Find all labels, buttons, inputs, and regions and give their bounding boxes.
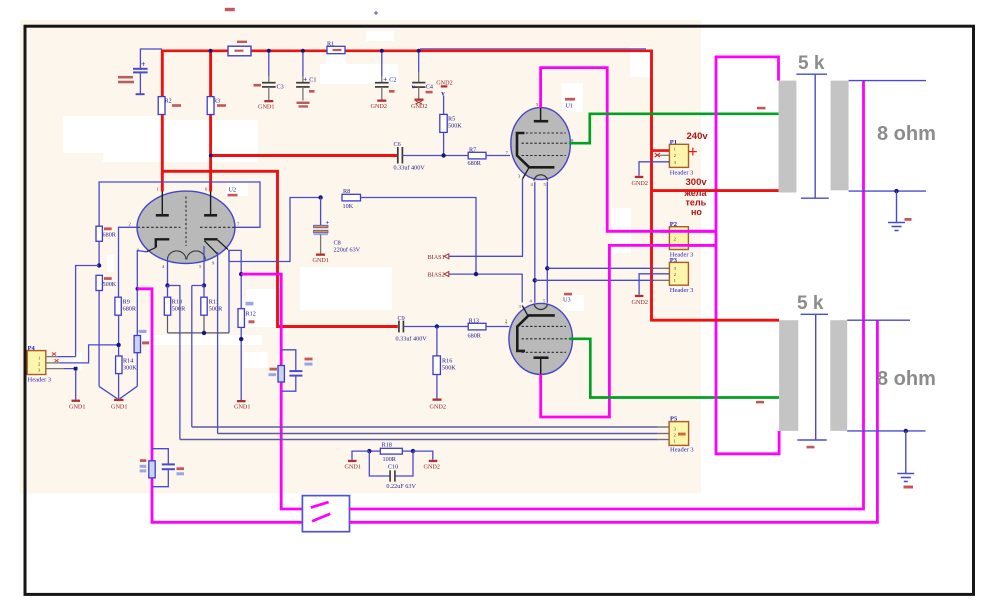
- ground GND1 (funnel): [111, 399, 128, 411]
- wire: U2 pin4 stub down to bus: [168, 286, 180, 440]
- resistor R2: [158, 50, 181, 192]
- resistor R13: [468, 318, 510, 340]
- wire: cathode2 to R12 and feedback node: [228, 250, 241, 308]
- wire: T1 secondary bottom: [849, 190, 926, 192]
- ground GND1 (C3): [258, 100, 275, 111]
- wire: U2 cathode1 line: [137, 251, 146, 387]
- wire: U2 left grid to divider network: [119, 227, 138, 297]
- svg-text:GND2: GND2: [632, 299, 649, 306]
- node: divider junction: [97, 263, 101, 267]
- resistor R16: [433, 327, 456, 399]
- svg-text:C1: C1: [309, 77, 316, 84]
- svg-text:680R: 680R: [468, 333, 482, 340]
- pentode U1 envelope: [511, 98, 575, 180]
- wires: ground funnel into GND1: [99, 386, 137, 399]
- svg-text:300v: 300v: [686, 177, 708, 188]
- svg-text:+: +: [688, 142, 698, 161]
- capacitor C10: [369, 451, 416, 490]
- net label BIAS2: [428, 272, 523, 303]
- capacitor C4: [412, 50, 434, 99]
- node: R8/C8 junction: [318, 195, 322, 199]
- heater bus wires to P5: [180, 427, 658, 440]
- wire: P4 pin2 to R9/R14 node: [46, 345, 119, 363]
- svg-text:680R: 680R: [468, 160, 482, 167]
- resistor R18: [367, 441, 415, 462]
- svg-text:500K: 500K: [448, 123, 462, 130]
- svg-text:R2: R2: [165, 98, 172, 105]
- svg-text:300K: 300K: [123, 365, 137, 372]
- wire: P1 pin3 to GND2: [639, 162, 669, 176]
- node: BIAS2/R8 junction: [474, 272, 478, 276]
- capacitor C2: [375, 50, 397, 100]
- svg-text:0.33uf 400V: 0.33uf 400V: [394, 165, 426, 172]
- resistor (cathode bypass, unlabelled): [134, 330, 149, 353]
- svg-text:8 ohm: 8 ohm: [877, 368, 936, 390]
- wire: magenta switch to output tap 2: [350, 320, 878, 522]
- svg-text:Header 3: Header 3: [670, 447, 694, 454]
- ground GND2 (C4): [411, 99, 428, 111]
- resistor R10: [164, 286, 186, 333]
- node: cathode/feedback tap: [136, 287, 140, 291]
- transformer T2 primary bar: [779, 320, 798, 431]
- wire: P3 pin2 to GND2: [639, 274, 669, 295]
- svg-text:0.33uf 400V: 0.33uf 400V: [396, 336, 428, 343]
- transformer T2 secondary bar: [830, 320, 847, 431]
- earth ground (T1 secondary): [888, 191, 912, 230]
- svg-text:U1: U1: [566, 103, 574, 110]
- svg-text:R16: R16: [442, 358, 452, 365]
- wire: green U3 screen to transformer 2: [570, 339, 780, 398]
- wire: B+ red vertical drop to output stage: [650, 50, 653, 321]
- svg-text:R12: R12: [246, 311, 256, 318]
- wire: divider junction to P4 pin1: [76, 266, 100, 357]
- ground (red bars, C1): [297, 102, 310, 108]
- wire: U2 pin9 line down to bus: [217, 252, 219, 434]
- svg-text:Header 3: Header 3: [670, 169, 694, 176]
- svg-text:500K: 500K: [442, 365, 456, 372]
- pentode U3 envelope: [509, 293, 573, 375]
- resistor R9: [115, 297, 137, 356]
- svg-text:BIAS1: BIAS1: [428, 254, 445, 261]
- svg-text:GND1: GND1: [69, 404, 86, 411]
- svg-text:Header 3: Header 3: [28, 377, 52, 384]
- svg-text:GND2: GND2: [430, 404, 447, 411]
- wire: magenta primary link vertical: [716, 57, 779, 454]
- transformer T1 core: [796, 74, 828, 198]
- wire: U2 pin4 line: [167, 260, 169, 286]
- wire: tail to U2 cathode2: [228, 250, 230, 333]
- svg-text:5 k: 5 k: [798, 53, 825, 74]
- wire: blue feed into B+ bus: [140, 49, 162, 70]
- svg-text:C2: C2: [389, 77, 396, 84]
- wire: heater tap to P3 pin3: [547, 267, 654, 269]
- wire: U1 heater pin5 down: [546, 182, 548, 303]
- header P1: [669, 139, 693, 177]
- header P5: [669, 416, 694, 454]
- resistor R5: [440, 114, 462, 155]
- svg-text:C10: C10: [388, 463, 398, 470]
- transformer T2 core: [797, 314, 828, 440]
- U2 grids (dashed) and centre divider: [137, 197, 235, 247]
- transformer T1 primary bar: [779, 81, 797, 193]
- node: R11 top: [202, 283, 206, 287]
- earth ground (T2 secondary): [897, 431, 914, 489]
- wire: U2 pin5 stub down to bus: [192, 286, 204, 428]
- svg-text:R5: R5: [448, 116, 455, 123]
- node: C9/R13/R16 junction: [435, 324, 439, 328]
- triode U2 envelope: [137, 187, 238, 264]
- wire: U2 pin5 line: [203, 246, 205, 286]
- node: heater tap to P3 pin3: [545, 266, 549, 270]
- svg-text:C4: C4: [426, 84, 433, 91]
- fuse/resistor box (unlabelled, top): [228, 41, 251, 56]
- node: R10 top: [165, 283, 169, 287]
- U1 heater arc: [534, 175, 548, 181]
- wire: magenta switch to output tap 1: [350, 81, 864, 509]
- power port GND2 (feeds R5): [436, 80, 453, 115]
- U1 grids (dashed): [522, 133, 570, 156]
- resistor R7: [468, 147, 511, 167]
- wire: thin blue edge along B+ bus: [420, 48, 646, 50]
- ground GND2 (R16): [430, 399, 447, 411]
- wire: T2 secondary top: [847, 319, 910, 321]
- svg-text:тель: тель: [686, 197, 707, 207]
- svg-text:U3: U3: [563, 297, 571, 304]
- wire: U1 anode magenta loop: [541, 68, 716, 232]
- svg-text:8 ohm: 8 ohm: [877, 123, 936, 145]
- ground GND1 (P4): [69, 400, 86, 411]
- svg-text:+: +: [141, 60, 146, 69]
- wire: U2 right grid loop to top-left: [99, 182, 260, 227]
- wire: red P1 feed stub: [652, 149, 670, 152]
- svg-text:500R: 500R: [172, 306, 186, 313]
- U1 anode pin and plate: [534, 102, 548, 121]
- svg-text:10K: 10K: [343, 203, 354, 210]
- wire: P4 pin1: [46, 353, 76, 357]
- svg-text:R9: R9: [123, 299, 130, 306]
- wire: R18 left to GND1: [352, 451, 369, 460]
- white patches: [63, 116, 163, 153]
- svg-text:но: но: [691, 207, 702, 217]
- svg-text:240v: 240v: [687, 131, 709, 142]
- wire: P4 pin3 to ground: [46, 367, 78, 400]
- capacitor C8: [314, 198, 361, 254]
- resistor (feedback divider on magenta, left): [140, 459, 156, 478]
- svg-text:680R: 680R: [123, 306, 137, 313]
- U1 grid bracket and cathode: [517, 133, 554, 179]
- capacitor (parallel with right feedback resistor): [281, 350, 312, 391]
- wire: B+ red bus: [161, 49, 651, 52]
- wire: red B+ to T2 primary: [650, 319, 779, 322]
- svg-text:R18: R18: [382, 441, 392, 448]
- svg-text:GND2: GND2: [424, 463, 441, 470]
- header P3: [669, 257, 693, 294]
- svg-text:C6: C6: [394, 141, 401, 148]
- stray red mark above frame: [225, 8, 235, 11]
- capacitor C3: [254, 50, 284, 100]
- wire: T2 secondary bottom: [847, 430, 925, 432]
- net label BIAS1: [428, 179, 523, 261]
- switch (output selector): [302, 496, 349, 532]
- ground GND1 (R12): [234, 400, 251, 411]
- capacitor C9: [396, 315, 469, 343]
- U2 cathode 2 (pin 8 hook): [204, 239, 228, 254]
- svg-text:R14: R14: [123, 358, 133, 365]
- svg-text:Header 3: Header 3: [670, 287, 694, 294]
- wire: heater tap to P3 pin1: [535, 279, 654, 281]
- svg-text:100R: 100R: [383, 456, 397, 463]
- node: R5/C6/R7 junction: [441, 153, 445, 157]
- resistor 500K (left divider): [96, 275, 117, 386]
- svg-text:GND1: GND1: [234, 404, 251, 411]
- svg-text:500R: 500R: [209, 306, 223, 313]
- header P4: [27, 345, 51, 384]
- U2 cathode 1: [147, 239, 170, 252]
- stray mark above frame: [374, 11, 378, 15]
- svg-text:680R: 680R: [103, 232, 117, 239]
- resistor 680R (left divider): [96, 226, 117, 265]
- svg-text:GND2: GND2: [632, 180, 649, 187]
- resistor R1: [327, 41, 345, 54]
- magenta overlays across header P2: [660, 231, 716, 245]
- U3 anode pin and plate: [534, 358, 549, 375]
- resistor (feedback divider on magenta, right): [269, 366, 285, 383]
- ground GND2 (P3): [632, 295, 649, 306]
- resistor R12: [238, 302, 256, 400]
- U2 heater arcs: [168, 251, 206, 260]
- wire: cathode2 to feedback resistor R8: [229, 198, 321, 262]
- svg-text:U2: U2: [229, 187, 237, 194]
- capacitor (parallel with left feedback resistor): [152, 449, 184, 487]
- node: feedback/R12: [239, 272, 243, 276]
- ground GND2 (P1): [632, 176, 649, 187]
- junction node dots on B+ bus: [209, 49, 421, 53]
- U3 cathode and grid bracket: [517, 306, 555, 351]
- wire: red 300v line to transformer 1: [652, 189, 779, 192]
- U3 grids (dashed): [522, 326, 570, 352]
- wire: U1 heater pin4 down: [534, 182, 536, 303]
- U2 anode 1 (pin 1): [156, 187, 169, 216]
- svg-text:220uf 63V: 220uf 63V: [334, 247, 361, 254]
- ground GND1 (R18): [345, 460, 362, 471]
- node: R9/R14/P4 junction: [116, 343, 120, 347]
- ground GND1 (C8): [313, 254, 330, 265]
- ground GND2 (R18): [424, 460, 441, 471]
- node: heater tap to P3 pin1: [533, 278, 537, 282]
- wire: T1 secondary top: [849, 80, 926, 82]
- svg-text:C8: C8: [334, 240, 341, 247]
- ground GND2 (C2): [371, 100, 388, 111]
- node: red junction at R3/C6 feed: [209, 154, 213, 158]
- wire: P1 pin2 stub with error cross: [655, 153, 670, 157]
- svg-text:0.22uF 63V: 0.22uF 63V: [386, 483, 416, 490]
- svg-text:5 k: 5 k: [797, 293, 824, 314]
- capacitor C6: [211, 141, 469, 172]
- header P2: [669, 221, 693, 258]
- capacitor C1: [296, 50, 316, 101]
- svg-text:R10: R10: [172, 299, 182, 306]
- resistor R14: [116, 356, 138, 399]
- wire: green U1 screen to transformer 1: [569, 114, 779, 143]
- svg-text:BIAS2: BIAS2: [428, 272, 445, 279]
- resistor R8: [342, 188, 476, 274]
- wire: magenta feedback (upper leg): [241, 274, 302, 509]
- U2 anode 2 (pin 6): [204, 187, 217, 216]
- svg-text:GND1: GND1: [258, 104, 275, 111]
- transformer T1 secondary bar: [831, 81, 849, 191]
- svg-text:C3: C3: [277, 84, 284, 91]
- svg-text:GND2: GND2: [371, 103, 388, 110]
- wire: R10/R11 common tail bus: [168, 332, 230, 334]
- svg-text:GND1: GND1: [345, 463, 362, 470]
- svg-text:GND1: GND1: [111, 404, 128, 411]
- U3 heater arc: [534, 304, 548, 310]
- svg-text:GND1: GND1: [313, 257, 330, 264]
- wire: red link bus to input tube anodes: [162, 171, 397, 326]
- svg-text:R3: R3: [213, 98, 220, 105]
- wire: magenta feedback (lower leg): [137, 289, 302, 523]
- resistor R3: [207, 50, 226, 192]
- svg-text:GND2: GND2: [411, 103, 428, 110]
- capacitor C? (filter electrolytic, top-left): [118, 60, 148, 94]
- svg-text:500K: 500K: [103, 281, 117, 288]
- wire: U3 anode magenta loop: [541, 245, 716, 417]
- resistor R11: [201, 286, 223, 333]
- wire: R18 right to GND2: [413, 451, 433, 460]
